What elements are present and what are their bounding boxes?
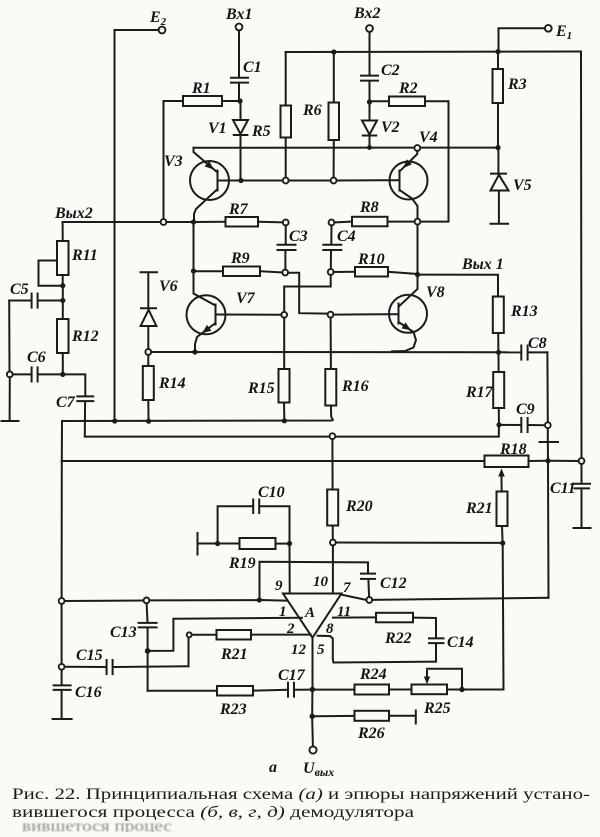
junction V3 collector on Вых2 [191, 219, 196, 224]
bus C with R18 [62, 460, 485, 462]
junction V8 base node [328, 312, 334, 318]
junction R21 bottom-left [187, 632, 192, 637]
capacitor C8 [501, 335, 547, 360]
wire R26 left [315, 715, 355, 717]
wire R7 to C3 [258, 221, 283, 224]
svg-text:R1: R1 [191, 80, 211, 97]
diode V5 [491, 150, 532, 224]
svg-text:V1: V1 [208, 120, 227, 137]
R19 left terminal bar [197, 533, 199, 555]
pin1 row seg3 [262, 599, 289, 602]
svg-text:V5: V5 [513, 177, 532, 194]
wire R23 row left [148, 690, 217, 692]
wire R6 top [333, 52, 335, 103]
op-amp U1 A [283, 594, 342, 638]
junction R21 bottom row [500, 540, 505, 545]
wire R8 right [388, 221, 415, 223]
svg-text:R18: R18 [499, 441, 527, 458]
junction R11 bottom [60, 283, 65, 288]
svg-text:R11: R11 [71, 247, 98, 264]
svg-text:R9: R9 [230, 250, 250, 267]
wire R15 bottom [283, 403, 285, 419]
wire R21 node down to R25 node [502, 546, 505, 690]
wire R13 bottom [497, 333, 499, 350]
capacitor C11 [550, 464, 590, 527]
base row y180 [244, 180, 283, 182]
cross-coupling path A [288, 273, 328, 314]
svg-text:C15: C15 [76, 647, 103, 664]
svg-text:C9: C9 [516, 401, 535, 418]
svg-text:Вых2: Вых2 [54, 205, 93, 222]
junction C6 right [60, 372, 65, 377]
junction R14 on bus A [146, 419, 151, 424]
junction R13/C8 [496, 350, 501, 355]
junction R20 top on bus B [330, 433, 336, 439]
svg-text:R24: R24 [359, 666, 387, 683]
resistor R6 [302, 102, 339, 140]
junction right rail / R18 row [579, 458, 585, 464]
junction V6/R14 on emitter row [145, 349, 151, 355]
resistor R8 [352, 199, 388, 226]
junction C4 bottom [328, 269, 334, 275]
capacitor C7 [56, 394, 93, 411]
capacitor C14 [429, 634, 474, 662]
right tall rail [580, 52, 583, 459]
bar on right mid rail [540, 441, 559, 443]
junction R19 left [215, 541, 220, 546]
wire C14 bottom loop to pin5 [318, 636, 436, 663]
resistor R20 [327, 490, 372, 526]
wire R21 left seg [192, 634, 217, 636]
junction V7 emitter [192, 349, 197, 354]
wire E2 to left rail [115, 29, 159, 31]
svg-text:R16: R16 [341, 378, 369, 395]
wire node to R2 [372, 100, 389, 102]
svg-text:A: A [304, 605, 315, 621]
wire R11 node to C5 node [62, 288, 64, 298]
wire C5 node to R12 [62, 303, 64, 319]
node R1/V1 [237, 98, 242, 103]
svg-text:C6: C6 [27, 349, 46, 366]
wire C15 row corner up to R21 left [188, 637, 190, 666]
Вых2 row [63, 221, 161, 223]
junction C6 left [7, 372, 13, 378]
transistor V8 [389, 277, 445, 351]
R18 wiper arrow [498, 469, 505, 481]
resistor R16 [325, 369, 368, 406]
svg-text:R19: R19 [228, 555, 256, 572]
wire R6 bottom to base row [333, 140, 335, 178]
node row147 right end [495, 145, 500, 150]
svg-text:R21: R21 [220, 646, 248, 663]
resistor R14 [143, 366, 186, 400]
emitter row y352 [151, 351, 496, 353]
ground below C16 [53, 718, 72, 720]
wire Вх1 to C1 [238, 30, 240, 77]
junction E1 feed [495, 49, 500, 54]
terminal Вх2 [353, 5, 380, 32]
resistor R15 [247, 369, 290, 403]
bus A [62, 420, 333, 421]
junction R25 node [459, 687, 464, 692]
wire R11 top to Вых2 [62, 222, 64, 241]
capacitor C1 [231, 59, 262, 83]
junction C3 top [283, 220, 289, 226]
svg-text:R7: R7 [228, 201, 249, 218]
wire R22 right corner down [413, 618, 436, 638]
diode V6 [141, 272, 178, 349]
svg-text:R10: R10 [357, 251, 385, 268]
svg-text:R15: R15 [247, 380, 275, 397]
wire R2 right down to collector node [420, 101, 449, 221]
terminal E1 [545, 23, 572, 42]
capacitor C9 [502, 401, 545, 432]
op-amp output column [312, 638, 314, 687]
wire V6 below to R14 [147, 355, 149, 366]
pin2 row [150, 618, 302, 651]
base row segment 3 to V4 [337, 179, 400, 181]
wire R24 to R25 [389, 689, 412, 691]
wire R9 left [196, 270, 223, 272]
svg-text:C14: C14 [447, 634, 474, 651]
wire R10 right to Вых1 node [388, 272, 415, 274]
junction C4 top [329, 220, 335, 226]
wire R14 bottom [147, 400, 149, 419]
svg-text:C13: C13 [110, 624, 137, 641]
wire R1 right to node [222, 100, 237, 102]
svg-text:10: 10 [313, 574, 329, 590]
svg-text:Вх2: Вх2 [353, 5, 380, 22]
right mid rail down to pin7 row [547, 463, 550, 597]
svg-text:Вх1: Вх1 [225, 6, 252, 23]
left rail down from bus C [61, 461, 63, 598]
resistor R22 [376, 613, 413, 647]
svg-text:V8: V8 [426, 284, 445, 301]
svg-text:R12: R12 [71, 328, 99, 345]
junction C5 right [60, 298, 65, 303]
resistor R5 [251, 106, 291, 141]
op-amp top rail [260, 562, 369, 600]
svg-text:R3: R3 [507, 76, 527, 93]
svg-text:V3: V3 [164, 153, 183, 170]
wire V7 base [217, 314, 281, 316]
resistor R3 [493, 69, 527, 103]
junction right mid rail R18 row [545, 458, 550, 463]
wire Вых2 row seg2 [166, 221, 191, 223]
svg-text:9: 9 [275, 578, 283, 594]
wire R21 right to pin12 [251, 634, 311, 636]
ground below C11 [574, 527, 591, 529]
resistor R26 [355, 711, 390, 742]
junction left rail pin1 row [59, 598, 65, 604]
wire R1 left down to Вых2 line [164, 101, 184, 219]
resistor R25 potentiometer [412, 669, 463, 717]
wire R24 left [315, 689, 354, 691]
transistor V3 [164, 148, 238, 219]
ground left [2, 420, 19, 422]
R11 tap loop [39, 261, 61, 286]
node V3 base / V1 [238, 178, 243, 183]
wire pin7 diagonal [341, 595, 367, 600]
capacitor C4 [323, 225, 355, 269]
junction R17/C9 [496, 422, 501, 427]
wire R20 top from bus B [331, 439, 333, 489]
svg-text:R2: R2 [398, 80, 418, 97]
svg-text:Рис. 22. Принципиальная схема: Рис. 22. Принципиальная схема (а) и эпюр… [12, 786, 590, 803]
wire R11 bottom [62, 275, 64, 283]
junction C13 top [144, 598, 150, 604]
junction output/C17/R24 [310, 687, 315, 692]
wire collector node down to Вых1 [417, 225, 419, 272]
terminal E2 [149, 9, 167, 33]
wire left stub to ground [9, 377, 11, 419]
svg-text:R13: R13 [510, 303, 538, 320]
left rail bus A corner down [61, 421, 63, 461]
junction left rail C15 [59, 664, 65, 670]
wire C6 row to C7 [65, 374, 85, 395]
wire Вх2 to C2 [369, 32, 371, 75]
capacitor C6 [13, 349, 61, 382]
wire R22 row from pin11 [333, 616, 376, 618]
node Вых1 column [415, 272, 420, 277]
resistor R19 [228, 538, 276, 572]
svg-text:V4: V4 [419, 129, 438, 146]
wire pin10 column [332, 545, 334, 593]
wire E2 left rail down to bottom bus [114, 30, 116, 421]
wire output to terminal [311, 719, 314, 747]
capacitor C2 [361, 62, 400, 81]
junction output/R26 [310, 714, 315, 719]
resistor R7 [226, 201, 259, 227]
wire R13 node down to R17 [498, 355, 500, 372]
diode V1 [208, 104, 248, 178]
svg-text:C7: C7 [56, 394, 76, 411]
junction R19 right [287, 541, 292, 546]
wire C4 bottom to R10 [334, 271, 355, 273]
resistor R18 [485, 441, 529, 467]
wire V3 collector down [193, 225, 195, 269]
wire C13 node down to R23 row [147, 654, 149, 691]
svg-text:R14: R14 [158, 375, 186, 392]
junction R20 row542 [330, 540, 336, 546]
svg-text:R21: R21 [465, 500, 493, 517]
capacitor C16 [54, 670, 102, 718]
wire C4 top to R8 [334, 221, 352, 224]
node C2/R2/V2 [367, 99, 372, 104]
wire R18 right [529, 460, 546, 462]
resistor R21 vertical [465, 492, 508, 527]
wire R16 bottom to bus corner [331, 406, 333, 420]
capacitor C3 [278, 225, 308, 269]
pin1 row seg2 [149, 599, 256, 601]
left stub rail [8, 301, 10, 372]
svg-text:Вых 1: Вых 1 [461, 256, 504, 273]
terminal Вх1 [225, 6, 252, 30]
junction V7 base node [281, 312, 287, 318]
svg-text:R26: R26 [357, 725, 385, 742]
wire C2 to node [369, 81, 371, 99]
svg-text:C17: C17 [278, 667, 306, 684]
capacitor C5 [9, 281, 60, 308]
junction V4 collector node [415, 219, 421, 225]
wire pin9 column [289, 546, 291, 593]
resistor R11 [57, 241, 98, 275]
wire terminal to R19 [198, 543, 215, 545]
emitter row y147 [194, 147, 499, 149]
wire output between nodes [311, 692, 313, 714]
svg-text:V7: V7 [236, 290, 256, 307]
Вых1 row [420, 275, 498, 297]
bus B [85, 427, 499, 436]
wire R17 bottom [498, 408, 500, 422]
junction pin7/C12 [366, 597, 372, 603]
wire Вых2 row seg3 [196, 221, 225, 223]
svg-text:5: 5 [317, 642, 325, 658]
svg-text:C5: C5 [10, 281, 29, 298]
junction R6 top [331, 49, 336, 54]
wire R26 right with bar [389, 715, 415, 717]
svg-text:а: а [269, 759, 277, 776]
svg-text:R23: R23 [219, 701, 247, 718]
svg-text:C1: C1 [243, 59, 262, 76]
svg-text:C3: C3 [289, 228, 308, 245]
svg-text:R8: R8 [359, 199, 379, 216]
row y542 [336, 542, 500, 544]
resistor R1 [183, 80, 222, 106]
transistor V7 [187, 274, 256, 350]
resistor R12 [57, 319, 99, 353]
svg-text:V6: V6 [159, 278, 178, 295]
resistor R2 [389, 80, 425, 106]
junction E2 rail on bus A [112, 418, 117, 423]
wire wiper to R21 [501, 480, 503, 492]
junction rail corner pin1 [257, 597, 262, 602]
capacitor C17 [278, 667, 310, 697]
transistor V4 [390, 129, 438, 219]
right mid rail C8 down [546, 352, 548, 422]
junction R9 left / V3 collector [191, 268, 196, 273]
wire R5 bottom to base row [285, 138, 287, 178]
junction C13 bottom [145, 648, 151, 654]
resistor R23 [217, 686, 253, 718]
wire left rail between [61, 604, 63, 664]
wire R5 top to supply row [285, 52, 287, 106]
cross-coupling path B [284, 275, 331, 312]
junction C9 right [545, 422, 551, 428]
supply row y52 [286, 51, 581, 54]
svg-text:V2: V2 [381, 119, 400, 136]
wire V8 base [333, 313, 398, 315]
svg-text:8: 8 [326, 621, 334, 637]
resistor R9 [223, 250, 260, 276]
wire R3 top [497, 52, 499, 69]
svg-text:R5: R5 [251, 123, 271, 140]
wire R20 bottom [332, 526, 334, 540]
junction R6 base row [331, 178, 337, 184]
wire E1 to supply row [499, 28, 545, 49]
pin7 row to right rail [372, 598, 548, 600]
wire R18 row to right rail [551, 460, 579, 462]
wire R3 bottom to row147 [497, 103, 499, 145]
svg-text:R17: R17 [465, 384, 494, 401]
junction R5 base row [283, 178, 289, 184]
resistor R13 [493, 297, 538, 334]
pin1 row [65, 600, 144, 603]
junction R15 on bus A [282, 418, 287, 423]
wire R15 hang [283, 318, 285, 369]
resistor R10 [355, 251, 388, 277]
svg-text:R25: R25 [423, 700, 451, 717]
capacitor C15 [65, 647, 189, 674]
junction V4 emitter on row147 [414, 145, 420, 151]
right mid rail down to R18 row [547, 428, 549, 458]
diode V2 [362, 105, 400, 145]
capacitor C13 [110, 603, 157, 648]
junction C3 bottom [282, 270, 288, 276]
capacitor C10 [218, 484, 290, 541]
resistor R24 [355, 666, 390, 695]
wire R23 right to C17 [253, 689, 287, 692]
wire R21 bottom [501, 526, 504, 540]
svg-text:R6: R6 [302, 102, 322, 119]
base row segment 2 [289, 180, 331, 182]
wire C7 down to bus B [84, 402, 86, 436]
wire R19 right seg [276, 543, 287, 545]
svg-text:12: 12 [291, 642, 307, 658]
svg-text:C10: C10 [258, 484, 285, 501]
capacitor C12 [361, 574, 407, 598]
R26 right terminal bar [415, 711, 417, 724]
resistor R21 lower [217, 630, 252, 663]
wire R25 node to R21 column [465, 689, 504, 691]
wire R12 bottom [62, 353, 64, 372]
wire R9 right to C3 bottom [260, 271, 282, 272]
svg-text:R22: R22 [384, 630, 412, 647]
wire R25 right [447, 689, 459, 691]
svg-text:вившетося процес: вившетося процес [22, 818, 172, 832]
svg-text:C16: C16 [75, 684, 102, 701]
svg-text:7: 7 [343, 580, 351, 596]
terminal Uвых [303, 746, 334, 779]
svg-text:C12: C12 [380, 575, 407, 592]
wire R16 hang [330, 318, 332, 370]
svg-text:C4: C4 [337, 228, 356, 245]
junction R1 on Вых2 [161, 219, 167, 225]
junction V2 on row147 [367, 145, 372, 150]
wire C1 to node [238, 83, 240, 101]
svg-text:C2: C2 [381, 62, 400, 79]
svg-text:C8: C8 [528, 335, 547, 352]
resistor R17 [465, 372, 504, 408]
svg-text:R20: R20 [345, 498, 373, 515]
svg-text:C11: C11 [550, 480, 576, 497]
caption [12, 786, 590, 835]
wire R19 left seg [220, 543, 239, 545]
